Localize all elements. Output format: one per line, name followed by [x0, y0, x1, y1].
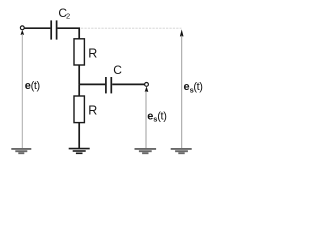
e(t) arrow line — [21, 34, 23, 148]
svg-text:(t): (t) — [31, 80, 40, 92]
ground (gray, left under e(t) arrow) — [11, 149, 31, 153]
label e(t) — [25, 80, 40, 92]
label es(t) right — [184, 81, 203, 95]
es(t) right measurement arrow head — [180, 29, 184, 36]
svg-text:R: R — [88, 103, 97, 117]
wire R bottom to junction — [78, 65, 80, 84]
label es(t) at output — [147, 111, 166, 124]
capacitor C2 — [51, 20, 56, 39]
wire junction down to R bottom resistor — [78, 84, 80, 96]
svg-text:C: C — [113, 63, 122, 77]
resistor R (top) — [74, 39, 84, 65]
resistor R (bottom) — [74, 96, 84, 123]
wire junction to C left plate — [79, 83, 105, 85]
ground (gray, under output arrow) — [135, 149, 157, 153]
label C2 — [58, 6, 70, 21]
es(t) right measurement arrow line — [181, 36, 183, 149]
wire input node to C2 left plate — [24, 27, 50, 29]
svg-text:(t): (t) — [157, 111, 166, 123]
e(t) arrow head (input voltage arrow) — [21, 30, 25, 35]
wire C right plate to output node — [112, 83, 144, 85]
es(t) output arrow line — [145, 91, 147, 148]
node E (input terminal, open circle) — [20, 26, 24, 30]
capacitor C — [106, 77, 111, 93]
wire C2 right plate to corner node A — [58, 28, 80, 39]
ground (black, below bottom R) — [69, 149, 90, 154]
wire R bottom to ground — [78, 123, 80, 148]
es(t) output arrow head — [145, 86, 149, 91]
node S (output terminal, open circle) — [145, 83, 149, 87]
svg-text:(t): (t) — [193, 81, 202, 93]
dashed reference line from node A to right arrow — [81, 27, 181, 29]
svg-text:2: 2 — [66, 11, 70, 20]
svg-text:R: R — [88, 46, 97, 60]
ground (gray, bottom right) — [171, 149, 192, 153]
